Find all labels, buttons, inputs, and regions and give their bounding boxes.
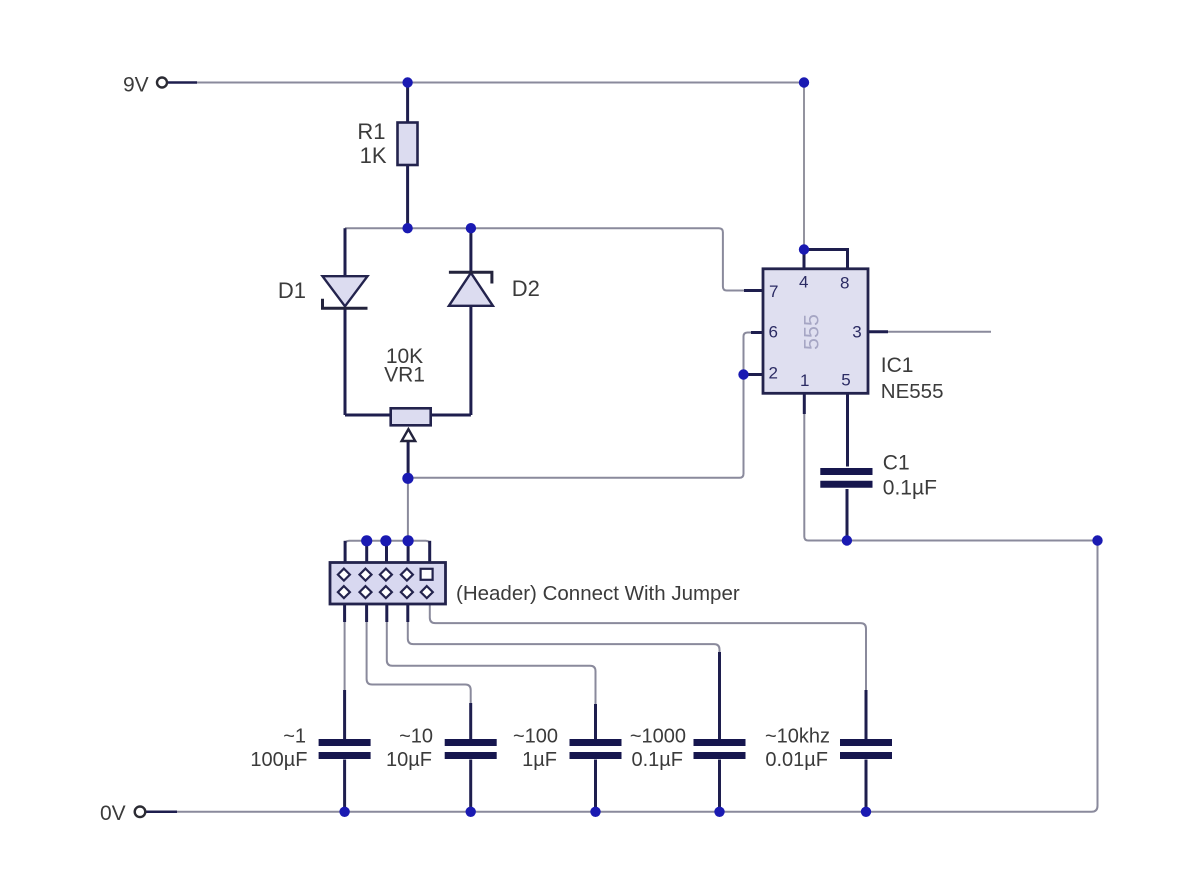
svg-text:~1: ~1 [283, 726, 306, 748]
svg-text:(Header) Connect With Jumper: (Header) Connect With Jumper [456, 582, 740, 605]
svg-text:4: 4 [799, 273, 808, 292]
svg-text:0.1µF: 0.1µF [631, 749, 683, 771]
svg-text:~100: ~100 [513, 726, 558, 748]
svg-text:3: 3 [852, 322, 861, 341]
svg-text:9V: 9V [123, 74, 149, 97]
svg-text:VR1: VR1 [384, 364, 425, 387]
svg-text:2: 2 [769, 364, 778, 383]
svg-text:5: 5 [841, 370, 850, 389]
svg-text:8: 8 [840, 273, 849, 292]
svg-text:1µF: 1µF [522, 749, 557, 771]
svg-text:NE555: NE555 [881, 380, 944, 403]
svg-text:D1: D1 [278, 278, 306, 303]
svg-text:0V: 0V [100, 802, 126, 825]
svg-text:10µF: 10µF [386, 749, 432, 771]
svg-text:~10: ~10 [399, 726, 433, 748]
svg-text:555: 555 [800, 314, 824, 350]
svg-text:0.01µF: 0.01µF [765, 749, 828, 771]
svg-text:IC1: IC1 [881, 354, 914, 377]
svg-text:100µF: 100µF [250, 749, 307, 771]
svg-text:7: 7 [769, 282, 778, 301]
svg-text:~10khz: ~10khz [765, 726, 830, 748]
svg-text:~1000: ~1000 [630, 726, 686, 748]
svg-text:1K: 1K [360, 143, 387, 168]
svg-text:6: 6 [769, 322, 778, 341]
svg-text:1: 1 [800, 371, 809, 390]
svg-text:R1: R1 [357, 119, 385, 144]
svg-text:0.1µF: 0.1µF [883, 476, 937, 499]
svg-text:C1: C1 [883, 452, 910, 475]
svg-text:D2: D2 [512, 276, 540, 301]
